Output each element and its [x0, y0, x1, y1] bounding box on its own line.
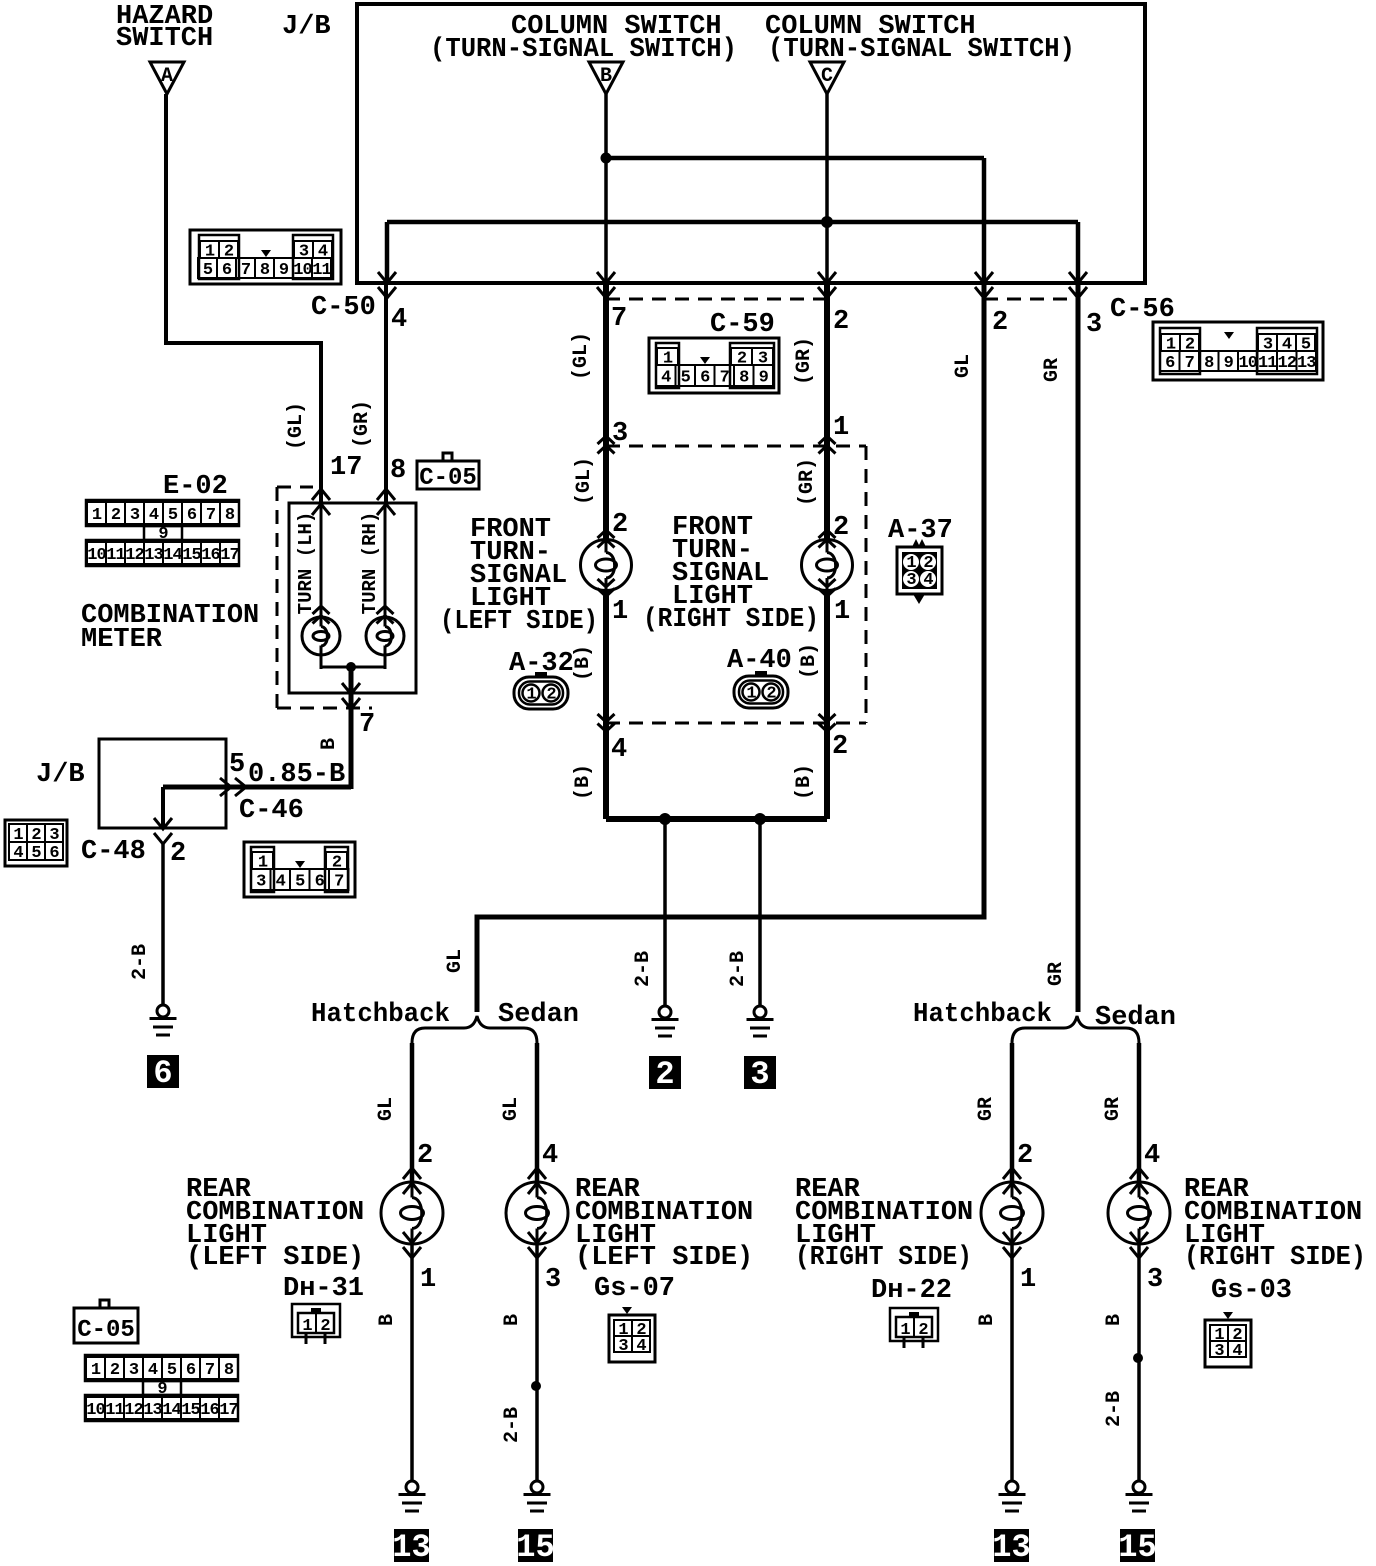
svg-text:C-59: C-59	[710, 310, 775, 340]
ground ref 6	[147, 1055, 179, 1088]
wire 0.85-B horizontal	[163, 785, 351, 790]
svg-text:1: 1	[526, 686, 536, 705]
connector box C-05 (top)	[417, 461, 479, 489]
wire lamp RH bottom	[384, 655, 387, 669]
svg-text:(B): (B)	[798, 643, 821, 679]
wire junction B to x984 inside J/B	[606, 156, 984, 161]
svg-text:J/B: J/B	[282, 12, 331, 42]
connector Gs-03	[1223, 1312, 1233, 1319]
svg-text:8: 8	[739, 369, 749, 388]
svg-text:(GR): (GR)	[351, 400, 374, 448]
ground ref 15 left	[518, 1529, 553, 1562]
lamp entry chevrons	[1130, 1168, 1148, 1194]
connector crossing C-59 pin 7 chevrons	[597, 272, 615, 298]
ground ref 2	[649, 1056, 681, 1089]
front dashed box	[606, 445, 866, 448]
wire rear feed x=412	[410, 1043, 415, 1183]
svg-text:(GR): (GR)	[796, 458, 819, 506]
svg-text:1: 1	[833, 413, 849, 443]
svg-text:11: 11	[1258, 354, 1277, 373]
svg-text:17: 17	[220, 546, 239, 565]
connector crossing bottom dashed front-right	[819, 714, 836, 732]
svg-text:7: 7	[334, 873, 344, 892]
ground symbol 2	[652, 1006, 679, 1036]
connector triangle B (column switch)	[589, 62, 623, 94]
svg-text:11: 11	[105, 1401, 124, 1420]
brace split left	[412, 1016, 537, 1043]
svg-text:(GL): (GL)	[573, 457, 596, 505]
svg-text:A: A	[161, 65, 173, 88]
wire hazard corner to x321	[166, 343, 321, 505]
wire from triangle C down through J/B	[825, 94, 829, 283]
wire ground 3 drop	[758, 819, 762, 1006]
svg-text:B: B	[318, 738, 341, 750]
svg-text:GR: GR	[1045, 962, 1068, 986]
node meter output junction	[346, 662, 356, 672]
lamp exit chevrons front-left	[598, 579, 615, 597]
svg-text:4: 4	[1144, 1141, 1160, 1171]
junction block J/B box	[357, 4, 1145, 283]
wire hazard switch A down	[164, 94, 168, 345]
wire meter GR lamp feed	[384, 503, 387, 617]
ground symbol 6	[150, 1005, 177, 1035]
wire front-left (GL) from C-59 pin7	[603, 283, 609, 540]
connector C-46 block	[244, 842, 355, 897]
lamp TURN (LH)	[302, 617, 340, 655]
svg-text:Sedan: Sedan	[498, 1000, 579, 1030]
combination meter dashed boundary	[276, 487, 279, 708]
svg-text:(B): (B)	[793, 764, 816, 800]
connector Dн-31	[292, 1304, 340, 1344]
svg-text:2-B: 2-B	[1103, 1391, 1126, 1427]
svg-text:1: 1	[746, 685, 756, 704]
lamp FRONT TURN-SIGNAL LIGHT (RIGHT SIDE)	[802, 540, 853, 591]
svg-text:6: 6	[187, 506, 197, 525]
svg-text:3: 3	[256, 873, 266, 892]
connector crossing pin 17 chevrons	[312, 489, 330, 515]
wire from triangle B down through J/B to C-59 pin 7	[604, 94, 608, 283]
brace split right	[1012, 1016, 1139, 1043]
svg-text:4: 4	[276, 873, 286, 892]
svg-text:(LEFT SIDE): (LEFT SIDE)	[575, 1243, 753, 1273]
node front B junction left	[659, 813, 671, 825]
svg-text:12: 12	[1278, 354, 1297, 373]
svg-text:4: 4	[13, 844, 23, 863]
svg-text:B: B	[600, 65, 612, 88]
lamp rear combination light	[381, 1182, 443, 1244]
svg-text:17: 17	[219, 1401, 238, 1420]
svg-text:16: 16	[200, 1401, 219, 1420]
svg-text:TURN (RH): TURN (RH)	[359, 512, 381, 615]
svg-text:13: 13	[144, 546, 163, 565]
svg-text:8: 8	[225, 506, 235, 525]
ground ref 13 right	[994, 1529, 1029, 1562]
svg-text:(GL): (GL)	[285, 402, 308, 450]
combination meter box	[289, 503, 416, 693]
connector A-40 oval	[734, 671, 788, 708]
svg-text:5: 5	[229, 750, 245, 780]
svg-text:2: 2	[766, 685, 776, 704]
svg-text:2-B: 2-B	[129, 944, 152, 980]
wire horizontal y222 inside J/B	[387, 220, 1078, 225]
svg-text:7: 7	[205, 1361, 215, 1380]
wire joining lamps	[321, 666, 385, 669]
svg-text:1: 1	[612, 597, 628, 627]
svg-text:C-46: C-46	[239, 796, 304, 826]
svg-text:(RIGHT SIDE): (RIGHT SIDE)	[643, 605, 819, 635]
C-56 key notch	[1224, 332, 1234, 339]
svg-text:3: 3	[1086, 310, 1102, 340]
lamp exit chevrons	[528, 1232, 546, 1258]
svg-text:C-50: C-50	[311, 293, 376, 323]
svg-text:13: 13	[143, 1401, 162, 1420]
node splice	[1133, 1353, 1143, 1363]
svg-text:4: 4	[1232, 1342, 1242, 1361]
svg-text:Dн-22: Dн-22	[871, 1276, 952, 1306]
svg-text:3: 3	[906, 571, 916, 590]
lamp FRONT TURN-SIGNAL LIGHT (LEFT SIDE)	[581, 540, 632, 591]
svg-text:13: 13	[992, 1529, 1030, 1566]
connector crossing pin 3 chevrons front-left	[598, 436, 615, 454]
svg-text:9: 9	[1224, 354, 1234, 373]
connector Gs-07	[622, 1307, 632, 1314]
lamp TURN (RH)	[366, 617, 404, 655]
svg-text:(GL): (GL)	[570, 332, 593, 380]
wire front-right (GR) from C-59 pin2	[824, 283, 830, 540]
ground ref 3	[744, 1056, 776, 1089]
C-59 key notch	[700, 357, 710, 364]
svg-text:Hatchback: Hatchback	[913, 1000, 1052, 1030]
ground symbol	[399, 1481, 426, 1511]
svg-text:A-37: A-37	[888, 516, 953, 546]
svg-text:2: 2	[612, 510, 628, 540]
svg-text:5: 5	[31, 844, 41, 863]
lamp entry chevrons	[1003, 1168, 1021, 1194]
connector crossing bottom dashed front-left	[598, 714, 615, 732]
svg-text:Dн-31: Dн-31	[283, 1274, 364, 1304]
wire rear lamp to ground	[410, 1245, 414, 1481]
svg-text:11: 11	[106, 546, 125, 565]
connector crossing meter exit chevrons	[342, 683, 360, 709]
svg-text:3: 3	[750, 1056, 769, 1093]
svg-text:SWITCH: SWITCH	[116, 24, 213, 54]
connector A-37 block	[897, 539, 942, 604]
wire x984 down to J/B bottom edge	[982, 158, 987, 283]
svg-text:B: B	[376, 1314, 399, 1326]
svg-text:2: 2	[655, 1056, 674, 1093]
svg-text:C-05: C-05	[419, 465, 477, 492]
ground symbol	[999, 1481, 1026, 1511]
svg-text:2: 2	[833, 307, 849, 337]
svg-text:7: 7	[1185, 354, 1195, 373]
svg-text:6: 6	[1165, 354, 1175, 373]
svg-text:8: 8	[260, 261, 270, 280]
svg-text:6: 6	[49, 844, 59, 863]
svg-text:B: B	[501, 1314, 524, 1326]
svg-text:5: 5	[167, 1361, 177, 1380]
svg-text:(LEFT SIDE): (LEFT SIDE)	[186, 1243, 364, 1273]
svg-text:E-02: E-02	[163, 472, 228, 502]
svg-text:2: 2	[170, 839, 186, 869]
dashed connector line C-59	[606, 298, 827, 301]
svg-text:10: 10	[86, 1401, 105, 1420]
svg-text:6: 6	[700, 369, 710, 388]
junction block J/B lower box	[99, 739, 226, 828]
svg-text:8: 8	[224, 1361, 234, 1380]
svg-text:5: 5	[168, 506, 178, 525]
svg-text:4: 4	[148, 1361, 158, 1380]
svg-text:7: 7	[611, 304, 627, 334]
svg-text:8: 8	[1204, 354, 1214, 373]
svg-text:(GR): (GR)	[793, 337, 816, 385]
lamp TURN LH chevron	[313, 606, 330, 624]
svg-text:6: 6	[153, 1055, 172, 1092]
svg-text:14: 14	[162, 1401, 181, 1420]
svg-text:C: C	[821, 65, 833, 88]
svg-text:2: 2	[1017, 1141, 1033, 1171]
wire x1078 down to J/B bottom edge	[1076, 222, 1081, 283]
svg-text:11: 11	[312, 261, 331, 280]
svg-text:5: 5	[295, 873, 305, 892]
svg-text:5: 5	[203, 261, 213, 280]
svg-text:13: 13	[392, 1529, 430, 1566]
connector C-05 17-pin block	[85, 1355, 238, 1421]
svg-text:2: 2	[417, 1141, 433, 1171]
svg-text:J/B: J/B	[36, 760, 85, 790]
svg-text:12: 12	[125, 546, 144, 565]
wire inside lower J/B down	[161, 787, 165, 828]
svg-text:17: 17	[330, 453, 362, 483]
svg-text:GL: GL	[444, 949, 467, 973]
svg-text:4: 4	[542, 1141, 558, 1171]
svg-text:(LEFT SIDE): (LEFT SIDE)	[440, 607, 598, 637]
wire rear lamp to ground	[535, 1245, 539, 1481]
svg-text:1: 1	[92, 506, 102, 525]
ground symbol	[1126, 1481, 1153, 1511]
wire GL rear feed from C-56 pin2	[477, 283, 984, 1012]
svg-text:2: 2	[111, 506, 121, 525]
svg-text:3: 3	[618, 1337, 628, 1356]
svg-text:METER: METER	[81, 625, 163, 655]
lamp entry chevrons	[403, 1168, 421, 1194]
connector crossing pin 8 chevrons	[377, 489, 395, 515]
svg-text:2: 2	[992, 308, 1008, 338]
lamp exit chevrons front-right	[819, 579, 836, 597]
lamp rear combination light	[1108, 1182, 1170, 1244]
svg-text:2: 2	[833, 513, 849, 543]
svg-text:5: 5	[681, 369, 691, 388]
svg-text:(B): (B)	[572, 645, 595, 681]
connector E-02 block	[86, 500, 239, 566]
connector crossing C-59 pin 2 chevrons	[818, 272, 836, 298]
wire front B join	[606, 816, 827, 822]
svg-text:C-48: C-48	[81, 837, 146, 867]
wire rear feed x=1139	[1137, 1043, 1142, 1183]
svg-text:0.85-B: 0.85-B	[248, 760, 345, 790]
node junction C-wire	[821, 216, 833, 228]
svg-text:2-B: 2-B	[501, 1407, 524, 1443]
connector A-32 oval	[514, 672, 568, 709]
svg-text:1: 1	[1020, 1265, 1036, 1295]
wire rear lamp to ground	[1010, 1245, 1014, 1481]
svg-text:8: 8	[390, 456, 406, 486]
svg-text:2: 2	[110, 1361, 120, 1380]
svg-text:1: 1	[834, 597, 850, 627]
connector C-48 block	[5, 820, 67, 866]
node junction B-wire	[601, 153, 612, 164]
lamp entry chevrons	[528, 1168, 546, 1194]
wire rear feed x=537	[535, 1043, 540, 1183]
svg-text:2-B: 2-B	[727, 951, 750, 987]
connector C-59 block	[649, 338, 779, 393]
svg-text:Hatchback: Hatchback	[311, 1000, 450, 1030]
lamp entry chevrons front-right	[819, 530, 836, 548]
svg-text:7: 7	[241, 261, 251, 280]
svg-text:4: 4	[923, 571, 933, 590]
svg-text:GR: GR	[1041, 358, 1064, 382]
svg-text:(RIGHT SIDE): (RIGHT SIDE)	[1184, 1243, 1366, 1273]
svg-text:1: 1	[91, 1361, 101, 1380]
svg-text:15: 15	[1118, 1529, 1156, 1566]
svg-text:12: 12	[124, 1401, 143, 1420]
ground ref 13 left	[394, 1529, 429, 1562]
svg-text:(B): (B)	[572, 764, 595, 800]
wire C-50 pin4 down to combination meter	[384, 283, 388, 505]
wire front-left lamp to join	[603, 590, 609, 819]
svg-text:4: 4	[391, 305, 407, 335]
svg-text:15: 15	[181, 1401, 200, 1420]
connector triangle C (column switch)	[810, 62, 844, 94]
svg-text:B: B	[1103, 1314, 1126, 1326]
wire x387 down to J/B bottom edge	[385, 222, 390, 283]
connector crossing C-46 pin 5 chevrons right	[220, 778, 246, 796]
connector C-50 block	[190, 230, 341, 284]
svg-text:10: 10	[293, 261, 312, 280]
lamp rear combination light	[506, 1182, 568, 1244]
svg-text:4: 4	[611, 735, 627, 765]
ground symbol	[524, 1481, 551, 1511]
ground symbol 3	[747, 1006, 774, 1036]
svg-text:3: 3	[1147, 1265, 1163, 1295]
svg-text:4: 4	[661, 369, 671, 388]
svg-text:GR: GR	[975, 1097, 998, 1121]
svg-text:3: 3	[130, 506, 140, 525]
svg-text:(RIGHT SIDE): (RIGHT SIDE)	[795, 1243, 972, 1273]
connector triangle A (hazard switch)	[150, 62, 184, 94]
wire meter GL lamp feed	[320, 503, 323, 617]
svg-text:2-B: 2-B	[632, 951, 655, 987]
lamp TURN RH chevron	[377, 606, 394, 624]
wire GR rear feed from C-56 pin3	[1076, 283, 1081, 1012]
svg-text:7: 7	[206, 506, 216, 525]
node front B junction right	[754, 813, 766, 825]
ground ref 15 right	[1120, 1529, 1155, 1562]
wire lamp LH bottom	[320, 655, 323, 669]
svg-text:3: 3	[129, 1361, 139, 1380]
svg-text:16: 16	[201, 546, 220, 565]
svg-text:GL: GL	[952, 354, 975, 378]
connector crossing pin 1 chevrons front-right	[819, 436, 836, 454]
connector crossing C-50 pin 4 chevrons	[378, 272, 396, 298]
svg-text:7: 7	[359, 710, 375, 740]
connector Dн-22	[890, 1308, 938, 1348]
svg-text:B: B	[976, 1314, 999, 1326]
wire meter output down	[349, 667, 354, 789]
node splice	[531, 1381, 541, 1391]
connector crossing C-56 pin 3 chevrons	[1069, 272, 1087, 298]
C-46 key notch	[295, 861, 305, 868]
svg-text:14: 14	[163, 546, 182, 565]
connector C-56 block	[1153, 322, 1323, 380]
lamp rear combination light	[981, 1182, 1043, 1244]
connector crossing C-56 pin 2 chevrons	[975, 272, 993, 298]
lamp exit chevrons	[403, 1232, 421, 1258]
wire front-right lamp to join	[824, 590, 830, 819]
wire ground 2 drop	[663, 819, 667, 1006]
svg-text:GL: GL	[375, 1097, 398, 1121]
svg-text:Gs-03: Gs-03	[1211, 1276, 1292, 1306]
svg-text:3: 3	[1214, 1342, 1224, 1361]
svg-text:TURN (LH): TURN (LH)	[295, 512, 317, 615]
svg-text:GL: GL	[500, 1097, 523, 1121]
lamp exit chevrons	[1130, 1232, 1148, 1258]
svg-text:Gs-07: Gs-07	[594, 1274, 675, 1304]
svg-text:9: 9	[279, 261, 289, 280]
dashed connector line C-56	[984, 298, 1078, 301]
connector box C-05 (bottom)	[74, 1308, 138, 1343]
wire C-48 to ground	[161, 843, 165, 1005]
svg-text:6: 6	[186, 1361, 196, 1380]
svg-text:4: 4	[149, 506, 159, 525]
svg-text:GR: GR	[1102, 1097, 1125, 1121]
svg-text:15: 15	[182, 546, 201, 565]
connector crossing C-48 pin 2 chevrons	[154, 818, 172, 844]
lamp entry chevrons front-left	[598, 530, 615, 548]
svg-text:(TURN-SIGNAL SWITCH): (TURN-SIGNAL SWITCH)	[430, 35, 737, 65]
svg-text:3: 3	[545, 1265, 561, 1295]
svg-text:7: 7	[720, 369, 730, 388]
svg-text:2: 2	[546, 686, 556, 705]
C-50 key notch	[261, 250, 271, 257]
svg-text:10: 10	[1239, 354, 1258, 373]
svg-text:15: 15	[516, 1529, 554, 1566]
wire rear lamp to ground	[1137, 1245, 1141, 1481]
wire rear feed x=1012	[1010, 1043, 1015, 1183]
svg-text:6: 6	[222, 261, 232, 280]
svg-text:3: 3	[612, 419, 628, 449]
svg-text:9: 9	[759, 369, 769, 388]
svg-text:6: 6	[315, 873, 325, 892]
svg-text:13: 13	[1297, 354, 1316, 373]
svg-text:10: 10	[87, 546, 106, 565]
svg-text:4: 4	[636, 1337, 646, 1356]
svg-text:1: 1	[420, 1265, 436, 1295]
lamp exit chevrons	[1003, 1232, 1021, 1258]
svg-text:2: 2	[832, 732, 848, 762]
svg-text:C-05: C-05	[77, 1317, 135, 1344]
